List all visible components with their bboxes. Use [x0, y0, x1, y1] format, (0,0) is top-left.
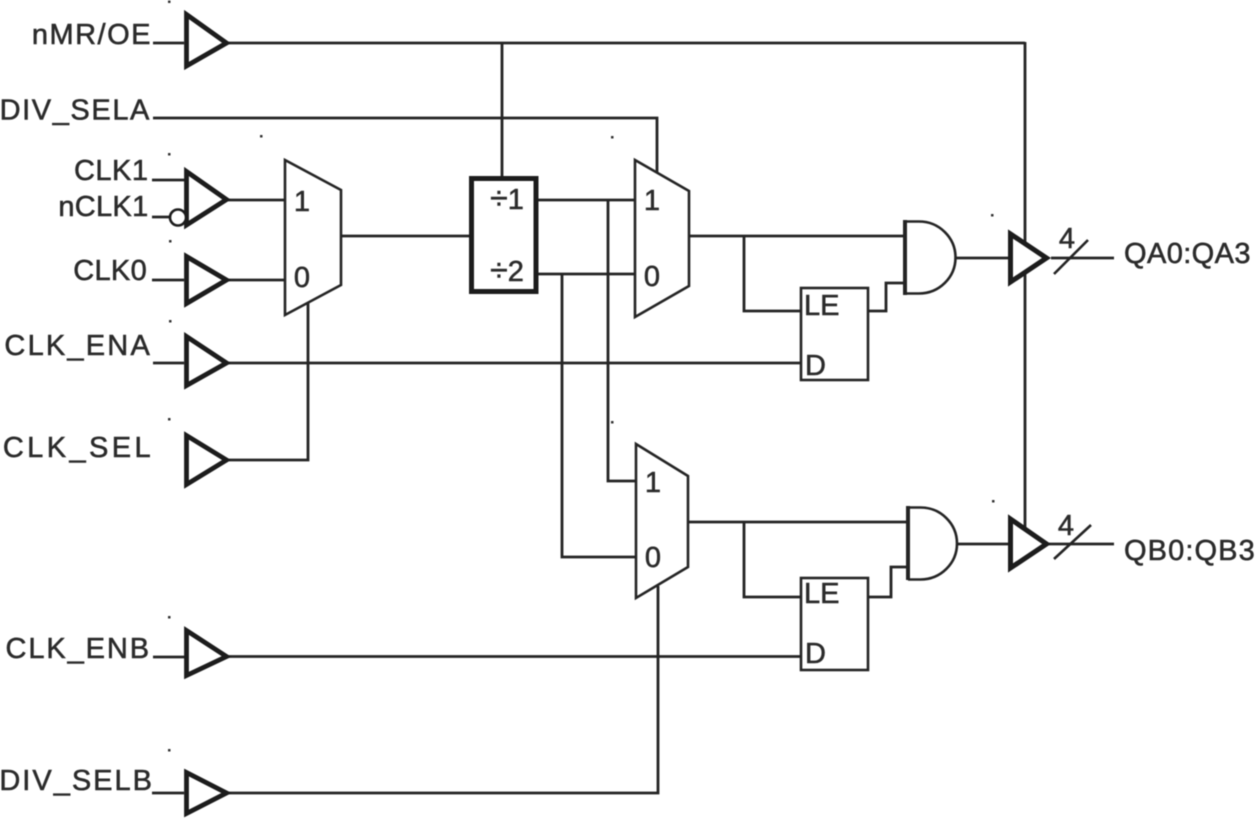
svg-text:DIV_SELB: DIV_SELB [0, 765, 154, 797]
svg-text:CLK1: CLK1 [74, 155, 149, 187]
svg-text:DIV_SELA: DIV_SELA [0, 95, 151, 127]
svg-text:0: 0 [294, 262, 310, 294]
svg-text:QB0:QB3: QB0:QB3 [1124, 535, 1256, 567]
svg-text:CLK_ENB: CLK_ENB [6, 633, 151, 665]
svg-text:CLK0: CLK0 [73, 255, 147, 287]
svg-text:QA0:QA3: QA0:QA3 [1124, 238, 1251, 270]
svg-text:0: 0 [645, 542, 661, 574]
svg-text:CLK_SEL: CLK_SEL [3, 432, 154, 464]
svg-text:÷2: ÷2 [490, 252, 524, 288]
svg-text:CLK_ENA: CLK_ENA [4, 330, 152, 362]
svg-text:1: 1 [294, 186, 310, 218]
svg-text:4: 4 [1059, 223, 1075, 255]
svg-text:D: D [805, 350, 826, 382]
svg-text:4: 4 [1058, 510, 1074, 542]
svg-text:D: D [805, 638, 826, 670]
svg-text:nCLK1: nCLK1 [58, 191, 148, 223]
svg-text:÷1: ÷1 [490, 180, 524, 216]
svg-text:nMR/OE: nMR/OE [32, 19, 152, 51]
svg-text:LE: LE [804, 578, 839, 610]
svg-text:1: 1 [645, 467, 661, 499]
svg-text:1: 1 [644, 185, 660, 217]
svg-text:LE: LE [804, 290, 839, 322]
svg-text:0: 0 [644, 261, 660, 293]
